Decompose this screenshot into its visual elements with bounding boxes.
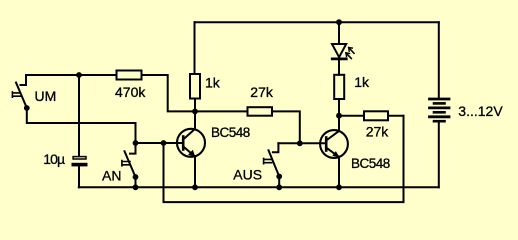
svg-text:470k: 470k: [115, 84, 146, 100]
node: AUS on ground rail: [276, 184, 282, 190]
svg-text:1k: 1k: [354, 74, 370, 90]
switch AUS (pushbutton): [264, 143, 283, 187]
switch AN (pushbutton): [122, 143, 139, 187]
wire: 470k right end down to Q1 collector node: [142, 75, 196, 111]
resistor R5 27k (right): [364, 111, 388, 120]
node: Q1 emitter on ground rail: [192, 184, 198, 190]
wire: R2 1k top lead from rail: [194, 22, 196, 74]
svg-text:10µ: 10µ: [43, 151, 65, 167]
svg-text:AN: AN: [102, 167, 121, 183]
wire: UM bottom lead down and right to Q1 base node: [27, 108, 136, 143]
svg-text:UM: UM: [35, 88, 57, 104]
resistor R1 470k: [117, 71, 142, 80]
transistor Q2 BC548 (NPN): [320, 130, 348, 158]
node: LED branch on top rail: [336, 19, 342, 25]
svg-text:AUS: AUS: [233, 167, 262, 183]
wire: Q1 base wire: [136, 142, 184, 144]
wire: LED cathode to R4 1k: [338, 60, 340, 75]
wire: R2 1k bottom lead to collector node: [194, 99, 196, 112]
wire: Q2 base wire from AUS corner to base: [278, 142, 326, 144]
svg-text:BC548: BC548: [351, 156, 390, 171]
resistor R4 1k (right): [334, 75, 344, 99]
LED D1: [332, 44, 354, 59]
wire: battery top lead: [438, 22, 440, 97]
wire: R4 1k bottom lead to Q2 collector node: [338, 99, 340, 116]
node: Q1 collector / R2 / R3: [192, 109, 198, 115]
wire: top supply rail: [195, 21, 439, 23]
svg-text:27k: 27k: [250, 84, 274, 100]
wire: Q1 collector lead: [194, 111, 196, 129]
wire: battery bottom lead: [438, 123, 440, 188]
transistor Q1 BC548 (NPN): [177, 129, 205, 157]
wire: Q2 emitter lead to ground rail: [338, 157, 340, 188]
wire: Q2 collector lead: [338, 116, 340, 132]
node: Q2 base / AUS wire: [297, 140, 303, 146]
node: Q1 base / cross-coupling: [161, 140, 167, 146]
switch UM (pushbutton): [12, 75, 29, 111]
wire: capacitor bottom lead to ground rail: [78, 166, 80, 187]
wire: capacitor top lead from node A down: [78, 75, 80, 156]
node: Q1 base / UM / AN: [133, 140, 139, 146]
node: Q2 emitter on ground rail: [336, 184, 342, 190]
wire: R5 27k left lead to Q2 collector node: [339, 115, 364, 117]
node A: UM/470k/C1 junction: [76, 72, 82, 78]
svg-text:27k: 27k: [366, 124, 390, 140]
battery BT1: [430, 99, 450, 121]
wire: cross-coupling from Q1 base node down, right along lower bus, up to R5 27k: [164, 116, 404, 202]
node: Q2 collector / R4 / R5: [336, 113, 342, 119]
resistor R3 27k (left): [248, 107, 273, 116]
wire: bottom ground rail: [79, 186, 439, 188]
wire: UM top wire to 470k: [26, 74, 117, 76]
wire: Q1 emitter lead to ground rail: [194, 156, 196, 187]
wire: R5 27k right lead to corner: [388, 115, 404, 117]
node: AN on ground rail: [133, 184, 139, 190]
svg-text:1k: 1k: [205, 74, 221, 90]
capacitor C1 10µ (polarized): [72, 157, 88, 167]
wire: LED top lead from rail: [338, 22, 340, 44]
svg-text:3...12V: 3...12V: [458, 103, 503, 119]
resistor R2 1k (left): [190, 74, 200, 99]
svg-text:BC548: BC548: [211, 125, 250, 140]
wire: left 27k from Q1 collector node to corner and down to Q2 base node: [195, 111, 300, 143]
